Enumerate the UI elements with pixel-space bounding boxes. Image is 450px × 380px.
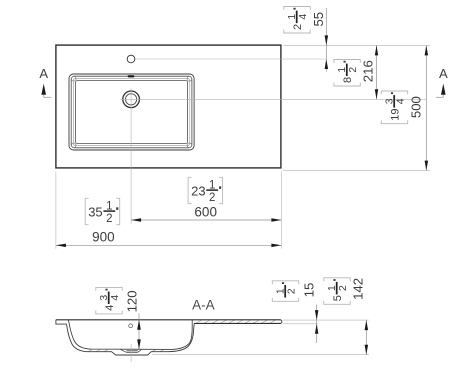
svg-text:4: 4	[110, 295, 121, 301]
svg-text:1: 1	[106, 200, 112, 212]
svg-text:2: 2	[292, 24, 304, 30]
svg-text:19: 19	[390, 108, 402, 120]
svg-text:1: 1	[337, 67, 348, 73]
svg-text:2: 2	[106, 213, 112, 225]
svg-text:23: 23	[191, 183, 205, 198]
svg-text:3: 3	[385, 98, 396, 104]
svg-text:8: 8	[342, 77, 354, 83]
svg-text:2: 2	[287, 288, 298, 294]
svg-text:900: 900	[92, 230, 115, 245]
svg-text:A: A	[439, 66, 448, 81]
svg-text:3: 3	[99, 295, 110, 301]
svg-text:1: 1	[287, 14, 298, 20]
svg-text:500: 500	[409, 96, 424, 118]
svg-text:1: 1	[209, 179, 215, 191]
svg-text:120: 120	[124, 290, 139, 312]
svg-text:4: 4	[104, 305, 116, 311]
svg-text:2: 2	[209, 192, 215, 204]
svg-text:35: 35	[88, 204, 102, 219]
svg-text:1: 1	[327, 285, 338, 291]
svg-text:1: 1	[276, 288, 287, 294]
svg-text:142: 142	[350, 278, 365, 300]
svg-text:4: 4	[396, 98, 407, 104]
svg-text:2: 2	[348, 67, 359, 73]
svg-text:4: 4	[298, 14, 309, 20]
svg-text:5: 5	[332, 295, 344, 301]
svg-text:2: 2	[338, 285, 349, 291]
svg-text:600: 600	[194, 205, 217, 220]
svg-text:A: A	[39, 66, 48, 81]
svg-text:216: 216	[361, 60, 376, 82]
svg-text:15: 15	[301, 283, 316, 298]
svg-text:A-A: A-A	[192, 298, 215, 313]
svg-text:55: 55	[311, 12, 326, 27]
